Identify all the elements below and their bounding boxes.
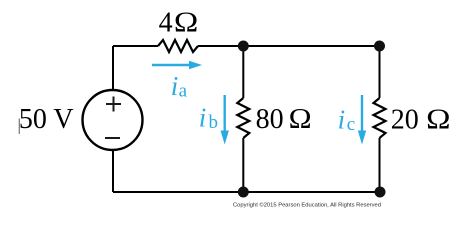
svg-text:50 V: 50 V <box>19 104 74 135</box>
svg-text:i: i <box>338 104 346 134</box>
svg-text:c: c <box>347 114 355 135</box>
resistor R3 20ohm zigzag <box>374 98 386 138</box>
voltage source plus sign <box>106 97 121 112</box>
wire middle branch lower <box>242 138 244 192</box>
current arrow i_c <box>361 95 363 132</box>
svg-text:Copyright ©2015 Pearson Educat: Copyright ©2015 Pearson Education, All R… <box>233 202 381 209</box>
wire right branch upper <box>379 46 381 98</box>
svg-text:i: i <box>171 71 179 101</box>
wire left vertical above source <box>112 46 114 90</box>
node bottom middle <box>238 187 249 198</box>
voltage source minus sign <box>105 137 120 139</box>
wire right branch lower <box>379 138 381 192</box>
svg-text:b: b <box>209 112 219 133</box>
voltage source V1 circle <box>83 90 143 150</box>
current arrow i_b <box>223 95 225 132</box>
wire middle branch upper <box>242 46 244 98</box>
current arrow i_a <box>152 64 191 66</box>
node top middle <box>238 41 249 52</box>
svg-text:Ω: Ω <box>426 105 450 136</box>
svg-text:80: 80 <box>256 104 284 135</box>
stray mark left of 50 V <box>18 119 20 135</box>
svg-text:Ω: Ω <box>289 104 312 135</box>
svg-text:i: i <box>199 103 207 133</box>
resistor R2 80ohm zigzag <box>237 98 249 138</box>
wire top-left segment <box>113 45 158 47</box>
node bottom right <box>375 187 386 198</box>
svg-text:a: a <box>179 81 188 102</box>
wire left vertical below source <box>112 150 114 192</box>
wire top-right segment <box>198 45 380 47</box>
wire bottom <box>113 191 380 193</box>
svg-text:Ω: Ω <box>174 7 198 38</box>
svg-text:4: 4 <box>159 7 173 38</box>
node top right <box>374 41 385 52</box>
resistor R1 4ohm zigzag <box>158 40 198 52</box>
svg-text:20: 20 <box>391 105 419 136</box>
